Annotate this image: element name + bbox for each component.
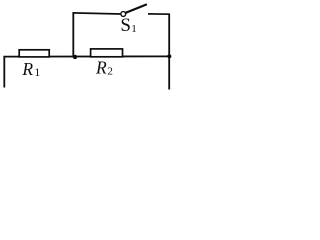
- node junction dot right: [167, 54, 171, 58]
- wire left vertical lead: [3, 56, 5, 88]
- switch S1 pivot circle: [121, 12, 126, 17]
- resistor R1: [19, 50, 49, 57]
- svg-text:R: R: [21, 59, 33, 79]
- resistor R2: [91, 49, 123, 57]
- wire middle vertical (junction up to top branch): [72, 12, 74, 57]
- wire top horizontal right (switch contact to corner): [148, 13, 170, 15]
- svg-text:2: 2: [107, 66, 113, 78]
- wire bottom horizontal: [4, 55, 170, 57]
- wire right vertical: [168, 14, 170, 90]
- svg-text:S: S: [120, 15, 131, 36]
- svg-text:R: R: [95, 58, 107, 78]
- switch S1 blade: [126, 5, 146, 13]
- svg-text:1: 1: [131, 23, 137, 35]
- svg-text:1: 1: [35, 67, 41, 79]
- wire top horizontal left (to switch): [73, 13, 121, 14]
- node junction dot between R1 and R2: [73, 55, 77, 59]
